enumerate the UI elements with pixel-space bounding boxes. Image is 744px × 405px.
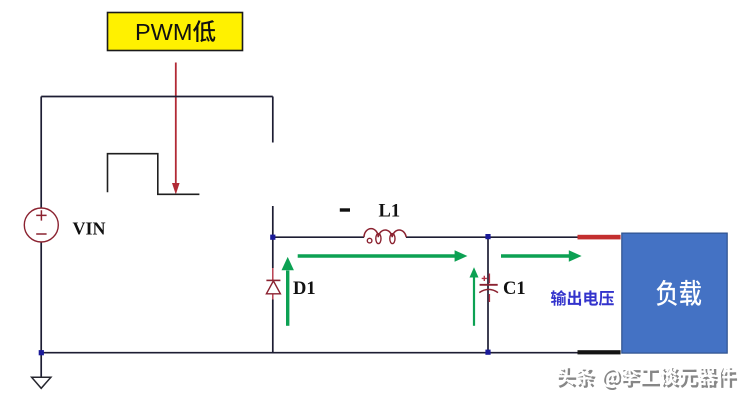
wire: diode branch upper [272, 237, 274, 268]
watermark 头条@李工谈元器件 [559, 368, 737, 390]
node: output bottom junction [485, 350, 490, 355]
svg-text:C1: C1 [503, 279, 526, 299]
diode D1 [272, 268, 274, 300]
node: ground junction [39, 350, 44, 355]
current arrow: diode up [286, 271, 289, 326]
wire: capacitor branch [487, 237, 489, 353]
current arrow: inductor left-to-right [298, 254, 456, 257]
load box 负载 [622, 233, 727, 353]
svg-text:VIN: VIN [73, 219, 106, 239]
wire: switch upper segment (open switch) [272, 97, 274, 143]
red positive terminal bar [578, 235, 621, 240]
current arrow: to load [501, 254, 571, 257]
current arrow: capacitor up [473, 277, 475, 326]
node: switch/diode junction [270, 235, 275, 240]
red annotation arrow [175, 63, 177, 184]
wire: top rail [41, 96, 273, 98]
svg-text:L1: L1 [379, 202, 401, 222]
label 输出电压 (output voltage) [551, 290, 614, 306]
inductor L1 [364, 229, 406, 238]
wire: bottom rail [41, 352, 578, 354]
wire: switch lower segment [272, 206, 274, 237]
PWM waveform [108, 154, 200, 195]
wire: node to inductor [273, 236, 364, 238]
wire: left rail lower [40, 242, 42, 353]
black negative terminal bar [578, 350, 621, 354]
capacitor C1 [488, 274, 490, 303]
node: output top junction [485, 234, 490, 239]
minus polarity label [340, 208, 350, 211]
svg-text:D1: D1 [293, 279, 316, 299]
ground [32, 377, 51, 388]
voltage source VIN [24, 208, 58, 242]
wire: inductor to output node and red terminal [406, 236, 578, 238]
wire: left rail upper [40, 97, 42, 209]
wire: ground stem [40, 353, 42, 377]
label box PWM低 [108, 13, 243, 51]
wire: diode branch lower [272, 300, 274, 353]
svg-text:PWM: PWM [135, 19, 192, 45]
